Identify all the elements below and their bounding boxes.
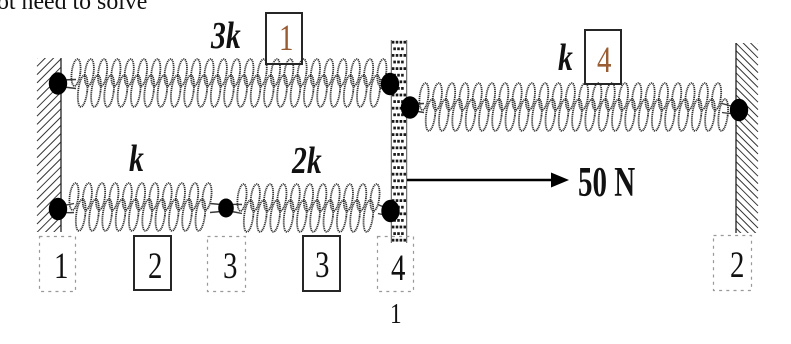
node F (bar bottom-left pivot) — [381, 200, 399, 222]
spring k (right) — [418, 83, 730, 132]
node E (bar right pivot) — [401, 96, 419, 118]
node A (wall-left top pivot) — [49, 72, 67, 94]
wall right edge line — [735, 43, 737, 233]
dashed outline box 4 (below bar) — [378, 237, 414, 292]
box mass 4 (top right, solid) — [584, 29, 622, 85]
dashed box 3 — [207, 236, 244, 290]
wall left edge line — [60, 58, 62, 232]
label 3k — [211, 14, 241, 58]
spring 3k (top) — [70, 59, 388, 108]
wall left (hatched support) — [37, 34, 61, 249]
spring 2k (bottom right) — [236, 184, 381, 233]
node D (bar top-left pivot) — [381, 73, 399, 95]
solid box 3 — [302, 235, 341, 292]
force label 50 N — [578, 159, 635, 207]
dashed box 1 (below left wall) — [39, 236, 74, 290]
force arrow 50 N — [407, 179, 553, 182]
node G (wall-right pivot) — [730, 99, 748, 121]
caption text (cropped at top) — [0, 0, 147, 16]
dashed outline box 1 (below left wall) — [40, 237, 76, 292]
dashed outline box 2 (below right wall) — [714, 236, 752, 291]
dashed outline box 3 (middle) — [208, 237, 246, 292]
dashed box 4 (below bar) — [377, 236, 412, 290]
node B (wall-left bottom pivot) — [49, 198, 67, 220]
dashed box 2 (below right wall) — [714, 235, 752, 290]
label k (top right spring) — [558, 36, 573, 80]
wall right (hatched support) — [736, 21, 758, 250]
node C (middle joint of k and 2k) — [218, 199, 234, 218]
spring k (bottom left) — [68, 183, 213, 232]
label 2k (bottom spring) — [292, 139, 322, 183]
label 1 (below dashed box 4) — [390, 298, 402, 331]
solid box 2 — [133, 235, 172, 291]
box mass 1 (top, solid) — [265, 12, 303, 65]
label k (bottom left spring) — [129, 137, 144, 181]
central bar (stippled rigid link) — [392, 41, 406, 242]
